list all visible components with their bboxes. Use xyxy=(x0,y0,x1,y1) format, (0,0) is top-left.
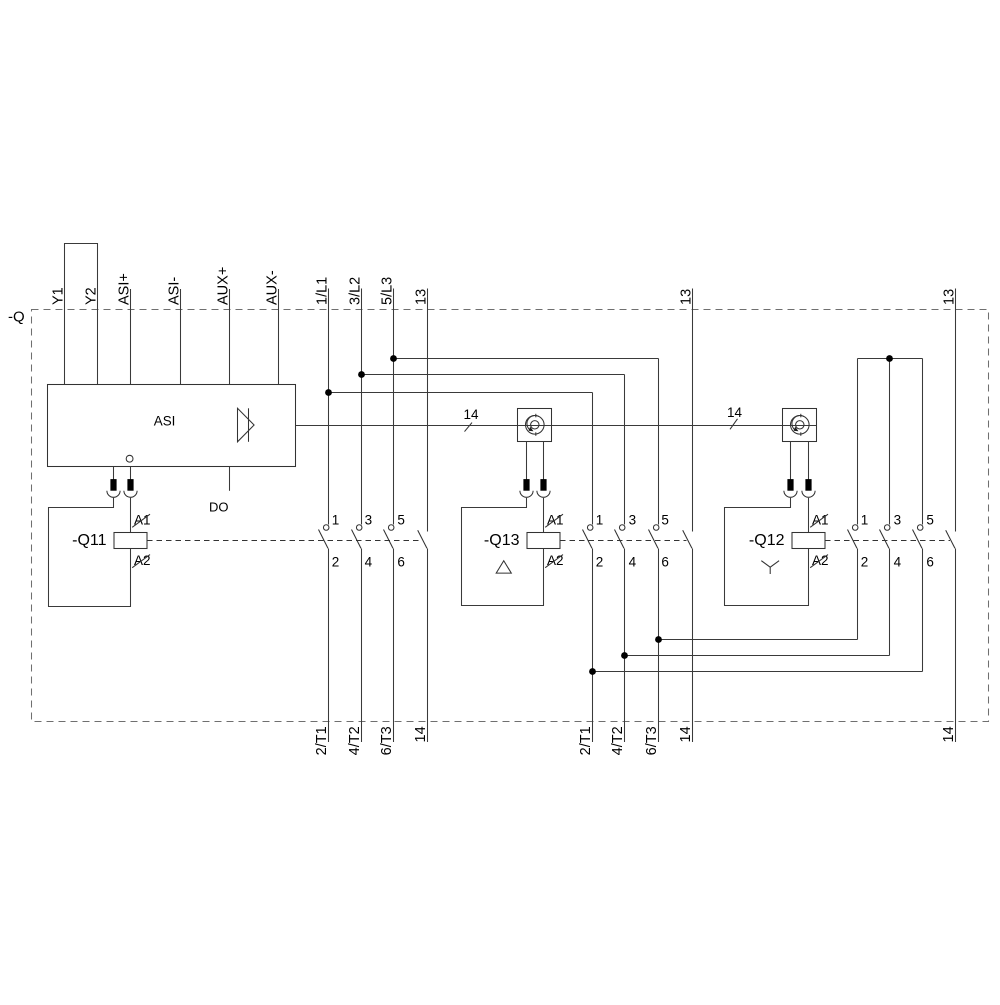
svg-text:13: 13 xyxy=(414,289,430,305)
svg-text:2: 2 xyxy=(332,554,340,569)
svg-text:-Q13: -Q13 xyxy=(484,532,520,549)
svg-text:3/L2: 3/L2 xyxy=(348,277,364,305)
svg-text:5: 5 xyxy=(926,513,934,528)
svg-text:2/T1: 2/T1 xyxy=(578,726,594,755)
svg-text:DO: DO xyxy=(209,499,229,514)
svg-text:-Q12: -Q12 xyxy=(749,532,785,549)
svg-text:14: 14 xyxy=(678,726,694,742)
svg-text:3: 3 xyxy=(894,513,902,528)
svg-text:1: 1 xyxy=(332,513,340,528)
svg-text:5: 5 xyxy=(661,513,669,528)
svg-text:6/T3: 6/T3 xyxy=(644,726,660,755)
svg-text:4/T2: 4/T2 xyxy=(610,726,626,755)
svg-text:1: 1 xyxy=(861,513,869,528)
svg-text:4: 4 xyxy=(894,554,902,569)
svg-text:3: 3 xyxy=(365,513,373,528)
svg-text:ASI+: ASI+ xyxy=(117,273,133,305)
svg-text:-Q: -Q xyxy=(8,309,25,326)
svg-text:6: 6 xyxy=(926,554,934,569)
svg-text:5/L3: 5/L3 xyxy=(380,277,396,305)
svg-text:Y2: Y2 xyxy=(84,287,100,305)
svg-text:4: 4 xyxy=(629,554,637,569)
svg-text:2: 2 xyxy=(861,554,869,569)
svg-text:14: 14 xyxy=(413,726,429,742)
svg-text:1: 1 xyxy=(596,513,604,528)
svg-text:6: 6 xyxy=(661,554,669,569)
svg-text:14: 14 xyxy=(727,405,743,420)
svg-text:2/T1: 2/T1 xyxy=(314,726,330,755)
svg-text:4/T2: 4/T2 xyxy=(347,726,363,755)
svg-text:1/L1: 1/L1 xyxy=(315,277,331,305)
svg-text:14: 14 xyxy=(464,407,480,422)
svg-text:AUX+: AUX+ xyxy=(216,267,232,305)
svg-text:-Q11: -Q11 xyxy=(72,532,106,549)
svg-text:13: 13 xyxy=(679,289,695,305)
svg-text:14: 14 xyxy=(941,726,957,742)
svg-text:4: 4 xyxy=(365,554,373,569)
svg-text:Y1: Y1 xyxy=(51,287,67,305)
svg-text:5: 5 xyxy=(397,513,405,528)
svg-text:ASI: ASI xyxy=(154,414,176,429)
svg-text:AUX-: AUX- xyxy=(265,270,281,305)
svg-text:6: 6 xyxy=(397,554,405,569)
svg-text:13: 13 xyxy=(942,289,958,305)
svg-text:3: 3 xyxy=(629,513,637,528)
svg-text:2: 2 xyxy=(596,554,604,569)
svg-text:ASI-: ASI- xyxy=(167,277,183,305)
svg-text:6/T3: 6/T3 xyxy=(379,726,395,755)
